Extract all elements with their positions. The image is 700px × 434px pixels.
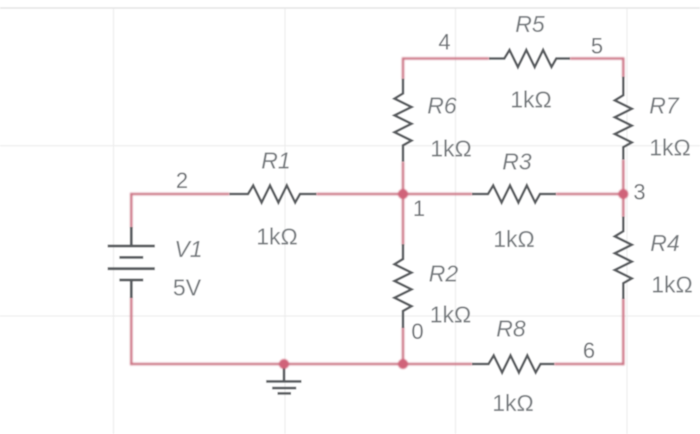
svg-text:1kΩ: 1kΩ — [256, 224, 298, 250]
svg-text:2: 2 — [176, 168, 188, 193]
svg-text:R3: R3 — [502, 149, 532, 175]
wire: R3 right lead to node 3 — [556, 193, 623, 195]
svg-text:1kΩ: 1kΩ — [430, 302, 472, 328]
battery V1 — [108, 227, 155, 298]
wire: node 2 battery top, corner down to battery lead — [130, 193, 132, 228]
svg-text:V1: V1 — [174, 236, 202, 262]
svg-text:1kΩ: 1kΩ — [651, 272, 693, 298]
wire: node 4 corner down to R6 top — [402, 57, 404, 79]
resistor R1 — [229, 186, 316, 203]
wire: node 3 down to R4 top — [622, 194, 624, 217]
resistor R7 — [615, 77, 632, 160]
svg-text:4: 4 — [438, 30, 450, 55]
svg-text:1: 1 — [413, 196, 425, 221]
svg-text:1kΩ: 1kΩ — [649, 135, 691, 161]
svg-text:R5: R5 — [515, 11, 545, 37]
svg-text:1kΩ: 1kΩ — [492, 390, 534, 416]
wire: battery bottom lead to bottom net — [130, 298, 132, 366]
wire: R8 right lead to node 6 corner — [554, 363, 624, 365]
svg-text:R7: R7 — [649, 93, 680, 119]
node 3 junction dot — [618, 189, 628, 199]
svg-text:3: 3 — [633, 180, 645, 205]
wire: bottom net, battery to ground junction and node 0 — [130, 363, 403, 365]
wire: R5 right lead to node 5 corner — [570, 57, 623, 59]
wire: R4 bottom to node 6 corner — [622, 299, 624, 366]
resistor R5 — [489, 50, 570, 67]
wire: node 2 corner to R1 left lead — [130, 193, 229, 195]
svg-text:1kΩ: 1kΩ — [493, 226, 535, 252]
ground junction dot — [279, 359, 289, 369]
svg-text:R1: R1 — [261, 148, 290, 174]
svg-text:5V: 5V — [173, 275, 202, 301]
node 1 junction dot — [398, 189, 408, 199]
ground — [266, 364, 301, 393]
resistor R4 — [615, 217, 632, 299]
svg-text:R6: R6 — [427, 93, 457, 119]
resistor R8 — [472, 356, 554, 373]
svg-text:5: 5 — [591, 34, 603, 59]
wire: R1 right lead to node 1 — [316, 193, 403, 195]
node 0 junction dot — [398, 359, 408, 369]
svg-text:1kΩ: 1kΩ — [430, 136, 472, 162]
wire: node 1 to R3 left lead — [403, 193, 472, 195]
wire: R6 bottom to node 1 — [402, 162, 404, 194]
svg-text:0: 0 — [411, 319, 423, 344]
wire: top net, node 4 to R5 left lead — [403, 57, 489, 59]
svg-text:R2: R2 — [429, 261, 459, 287]
svg-text:6: 6 — [583, 338, 595, 363]
resistor R2 — [395, 244, 412, 328]
resistor R3 — [472, 186, 556, 203]
wire: R2 bottom to node 0 — [402, 328, 404, 365]
wire: node 5 corner down to R7 top — [622, 57, 624, 77]
wire: R7 bottom to node 3 — [622, 160, 624, 194]
wire: node 0 to R8 left lead — [403, 363, 472, 365]
resistor R6 — [395, 79, 412, 162]
svg-text:R4: R4 — [650, 230, 679, 256]
svg-text:R8: R8 — [496, 316, 526, 342]
wire: node 1 down to R2 top — [402, 194, 404, 245]
svg-text:1kΩ: 1kΩ — [510, 87, 552, 113]
